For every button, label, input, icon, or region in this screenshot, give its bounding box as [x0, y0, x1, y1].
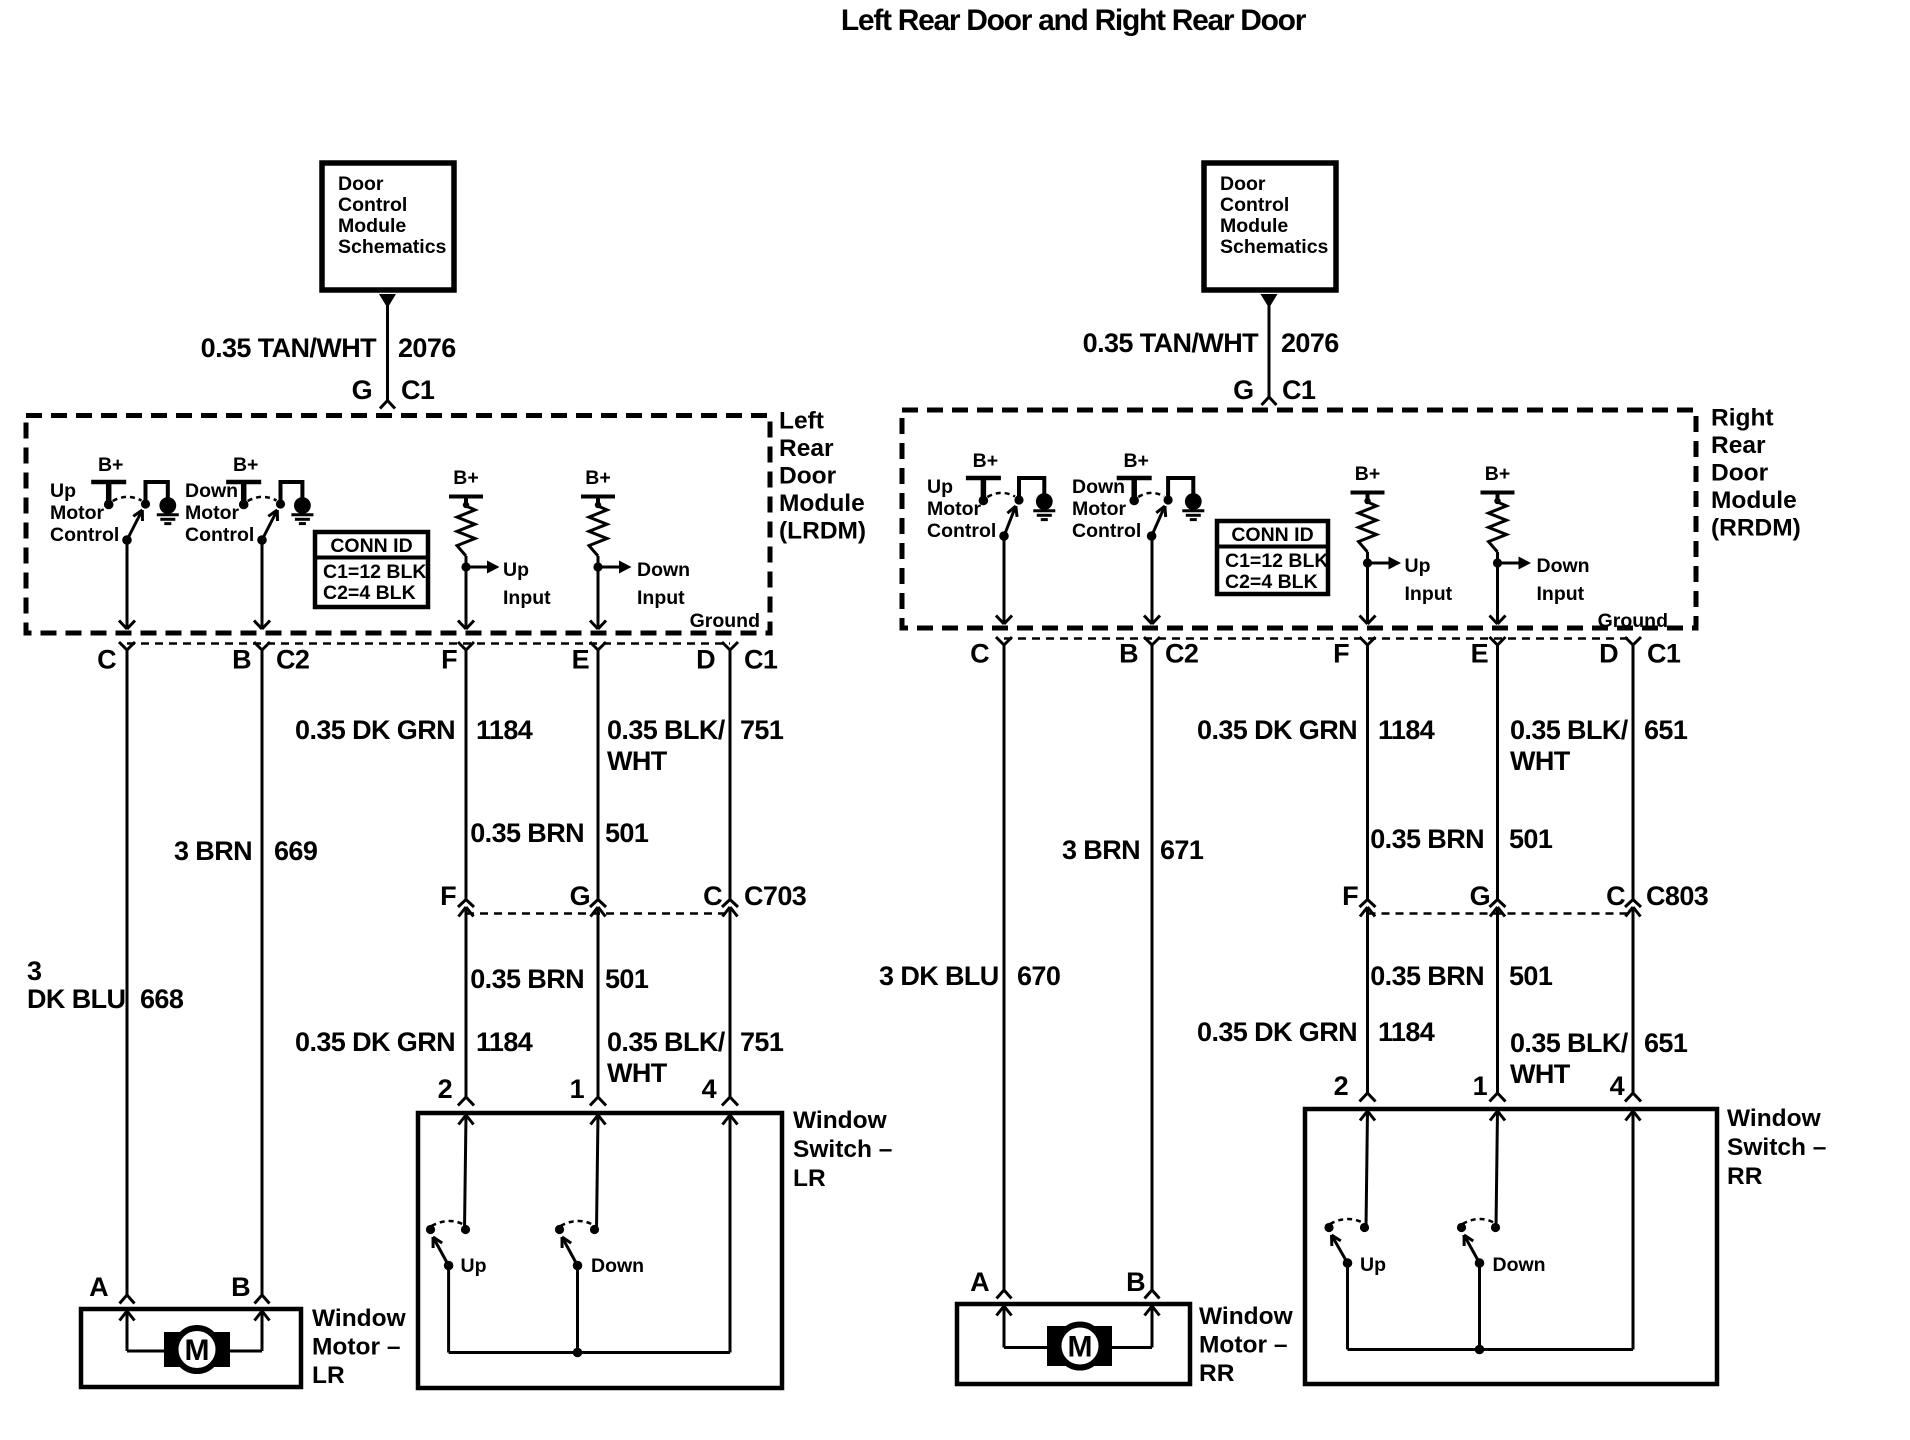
svg-text:Up: Up — [927, 476, 953, 498]
svg-text:Control: Control — [50, 524, 119, 546]
svg-text:B+: B+ — [973, 450, 998, 472]
connector pin C (right) — [970, 637, 1012, 669]
wire F to switch pin 2 (left) — [458, 907, 474, 1106]
svg-text:F: F — [1342, 881, 1358, 911]
label: Right Rear Door Module (RRDM) (right) — [1711, 405, 1801, 542]
svg-text:Window: Window — [1727, 1105, 1822, 1132]
svg-text:4: 4 — [1610, 1071, 1625, 1101]
wire G to switch pin 1 (left) — [590, 907, 606, 1106]
svg-text:Down: Down — [185, 480, 238, 502]
connector pin F (left) — [441, 642, 474, 675]
wire label: 0.35 BRN 501 upper (right) — [1370, 824, 1553, 854]
svg-text:Schematics: Schematics — [338, 236, 447, 258]
svg-text:0.35 TAN/WHT: 0.35 TAN/WHT — [201, 333, 377, 363]
svg-text:B+: B+ — [1485, 463, 1510, 485]
svg-text:Down: Down — [1072, 476, 1125, 498]
svg-text:501: 501 — [1509, 824, 1553, 854]
switch: Up (left) — [426, 1221, 487, 1277]
wire F to switch pin 2 (right) — [1360, 907, 1376, 1102]
svg-text:Module: Module — [779, 490, 865, 517]
relay: Up Motor Control (left) — [50, 454, 179, 546]
svg-text:670: 670 — [1017, 961, 1060, 991]
resistor: Up Input (right) — [1351, 463, 1453, 605]
switch wire from pin 1 (left) — [591, 1115, 606, 1230]
component box: Window Switch RR (right) — [1305, 1109, 1717, 1384]
wire label: 0.35 BLK/WHT 651 lower (right) — [1510, 1028, 1688, 1089]
switch wire from pin 1 (right) — [1490, 1111, 1505, 1228]
wire F up-input (right) — [1360, 563, 1376, 624]
svg-text:Up: Up — [461, 1255, 487, 1277]
wire: DCM to door module pin G with arrow (left) — [379, 294, 396, 401]
svg-text:0.35 BLK/: 0.35 BLK/ — [607, 1027, 726, 1057]
module box: Door Control Module Schematics (right) — [1204, 163, 1336, 290]
door module dashed box (left) — [26, 416, 770, 634]
resistor: Up Input (left) — [449, 467, 551, 609]
svg-text:2076: 2076 — [1281, 328, 1339, 358]
svg-text:Control: Control — [927, 520, 996, 542]
svg-text:B+: B+ — [453, 467, 478, 489]
svg-text:C703: C703 — [744, 881, 807, 911]
component box: Window Switch LR (left) — [418, 1113, 782, 1388]
svg-text:Control: Control — [185, 524, 254, 546]
svg-text:C: C — [1606, 881, 1625, 911]
connector id C703 (left) — [744, 881, 807, 911]
svg-text:G: G — [570, 881, 590, 911]
svg-text:C1=12 BLK: C1=12 BLK — [323, 561, 427, 583]
connector pin D (right) — [1599, 637, 1641, 669]
svg-text:Up: Up — [1360, 1254, 1386, 1276]
connector pins A B (left) — [89, 1272, 269, 1304]
label: Ground (right) — [1598, 610, 1668, 632]
svg-text:G: G — [352, 375, 372, 405]
svg-text:3 BRN: 3 BRN — [1062, 835, 1140, 865]
connector C703 pin C (left) — [703, 881, 738, 917]
svg-text:501: 501 — [605, 964, 649, 994]
svg-text:B: B — [232, 645, 251, 675]
svg-text:Schematics: Schematics — [1220, 236, 1329, 258]
wire F segment to C703 (right) — [1366, 645, 1369, 900]
svg-text:Rear: Rear — [779, 435, 834, 462]
wire label: 0.35 BLK/WHT 751 lower (left) — [607, 1027, 784, 1088]
svg-text:E: E — [1471, 639, 1488, 669]
switch pin numbers 2 1 4 (right) — [1334, 1071, 1625, 1101]
svg-text:1: 1 — [570, 1074, 585, 1104]
wire label: 0.35 DK GRN 1184 upper (right) — [1197, 715, 1435, 745]
wire label: 0.35 TAN/WHT 2076 (left) — [201, 333, 457, 363]
svg-text:Motor –: Motor – — [1199, 1332, 1287, 1359]
switch: Down (left) — [555, 1221, 644, 1277]
connector pin D (left) — [696, 642, 738, 675]
svg-text:0.35 BRN: 0.35 BRN — [1370, 961, 1484, 991]
svg-text:0.35 BLK/: 0.35 BLK/ — [1510, 1028, 1629, 1058]
svg-text:669: 669 — [274, 836, 318, 866]
svg-text:1184: 1184 — [1378, 1017, 1435, 1047]
connector id C803 (right) — [1646, 881, 1709, 911]
svg-text:C2: C2 — [276, 645, 309, 675]
connector id C2 (left) — [276, 645, 309, 675]
svg-text:A: A — [970, 1267, 989, 1297]
svg-text:B: B — [1119, 639, 1138, 669]
connector id C1 (left) — [744, 645, 778, 675]
svg-text:WHT: WHT — [607, 746, 668, 776]
component box: Window Motor RR (right) — [957, 1304, 1190, 1384]
svg-text:M: M — [185, 1334, 210, 1367]
svg-text:Door: Door — [338, 173, 384, 195]
svg-text:RR: RR — [1199, 1360, 1235, 1387]
connector pin F (right) — [1333, 637, 1375, 669]
svg-text:2: 2 — [1334, 1071, 1348, 1101]
wire label: 0.35 BLK/WHT 751 upper (left) — [607, 715, 784, 776]
label: Left Rear Door Module (LRDM) (left) — [779, 408, 866, 545]
svg-text:CONN ID: CONN ID — [330, 535, 412, 557]
wire label: 0.35 DK GRN 1184 lower (right) — [1197, 1017, 1435, 1047]
svg-text:Up: Up — [50, 480, 76, 502]
svg-text:0.35 TAN/WHT: 0.35 TAN/WHT — [1083, 328, 1259, 358]
switch wire from pin 2 (right) — [1360, 1111, 1375, 1228]
svg-text:F: F — [1333, 639, 1349, 669]
svg-text:Right: Right — [1711, 405, 1774, 432]
svg-text:Left Rear Door and Right Rear: Left Rear Door and Right Rear Door — [841, 4, 1307, 37]
svg-text:Down: Down — [1537, 555, 1590, 577]
wire label: 0.35 BRN 501 upper (left) — [470, 818, 649, 848]
svg-text:B+: B+ — [1123, 450, 1148, 472]
svg-text:501: 501 — [605, 818, 649, 848]
svg-text:CONN ID: CONN ID — [1231, 524, 1313, 546]
wire: DCM to door module pin G with arrow (right) — [1261, 294, 1278, 397]
svg-text:B+: B+ — [1355, 463, 1380, 485]
svg-text:D: D — [696, 645, 715, 675]
wire E down-input (left) — [590, 567, 606, 629]
svg-text:C: C — [703, 881, 722, 911]
switch: Down (right) — [1457, 1219, 1546, 1276]
svg-text:Motor: Motor — [185, 502, 240, 524]
svg-text:0.35 DK GRN: 0.35 DK GRN — [295, 715, 455, 745]
CONN ID table (left) — [315, 532, 428, 607]
connector C703 dashed line (left) — [466, 912, 730, 915]
relay: Up Motor Control (right) — [927, 450, 1055, 542]
svg-text:Window: Window — [312, 1305, 407, 1332]
svg-text:WHT: WHT — [1510, 1059, 1571, 1089]
switch pin numbers 2 1 4 (left) — [438, 1074, 717, 1104]
svg-text:LR: LR — [312, 1362, 345, 1389]
module box: Door Control Module Schematics (left) — [322, 163, 454, 290]
wire E segment to C703 (left) — [597, 650, 600, 900]
svg-text:Control: Control — [338, 194, 407, 216]
svg-text:B: B — [1126, 1267, 1145, 1297]
switch wire from pin 4 (right) — [1626, 1111, 1641, 1350]
connector id C2 (right) — [1165, 639, 1198, 669]
wire B to motor B (right) — [1151, 645, 1154, 1290]
svg-text:C: C — [97, 645, 116, 675]
svg-text:651: 651 — [1644, 1028, 1688, 1058]
svg-text:LR: LR — [793, 1165, 826, 1192]
wire label: 0.35 BLK/WHT 651 upper (right) — [1510, 715, 1688, 776]
motor M (right) — [997, 1306, 1160, 1368]
wire C to switch pin 4 (left) — [722, 907, 738, 1106]
svg-text:Module: Module — [1220, 215, 1288, 237]
svg-text:Motor –: Motor – — [312, 1334, 400, 1361]
svg-text:B+: B+ — [233, 454, 258, 476]
wire B to motor B (left) — [261, 650, 264, 1295]
svg-text:Module: Module — [1711, 487, 1797, 514]
connector G C1 (right) — [1233, 375, 1316, 405]
svg-text:3: 3 — [27, 956, 42, 986]
svg-text:C2=4 BLK: C2=4 BLK — [323, 582, 416, 604]
wire D segment to C703 (right) — [1632, 645, 1635, 900]
switch common return wire (left) — [449, 1266, 730, 1358]
svg-text:Input: Input — [637, 587, 685, 609]
svg-text:651: 651 — [1644, 715, 1688, 745]
svg-text:RR: RR — [1727, 1163, 1763, 1190]
relay: Down Motor Control (right) — [1072, 450, 1204, 542]
component box: Window Motor LR (left) — [81, 1309, 301, 1387]
wire C motor-up output (right) — [996, 536, 1012, 624]
wire B motor-down output (left) — [254, 540, 270, 629]
svg-text:C2=4 BLK: C2=4 BLK — [1225, 571, 1318, 593]
svg-text:2076: 2076 — [398, 333, 456, 363]
connector pins A B (right) — [970, 1267, 1159, 1299]
svg-text:G: G — [1470, 881, 1490, 911]
wire C to switch pin 4 (right) — [1625, 907, 1641, 1102]
svg-text:Ground: Ground — [1598, 610, 1668, 632]
wire label: 3 BRN 671 (right) — [1062, 835, 1204, 865]
svg-text:Switch –: Switch – — [1727, 1134, 1826, 1161]
svg-text:(RRDM): (RRDM) — [1711, 515, 1801, 542]
svg-text:M: M — [1068, 1331, 1093, 1364]
label: Ground (left) — [690, 610, 760, 632]
label: Window Switch RR (right) — [1727, 1105, 1826, 1190]
wire F segment to C703 (left) — [465, 650, 468, 900]
switch wire from pin 2 (left) — [459, 1115, 474, 1230]
svg-text:Ground: Ground — [690, 610, 760, 632]
svg-text:WHT: WHT — [1510, 746, 1571, 776]
svg-text:Control: Control — [1220, 194, 1289, 216]
svg-text:Input: Input — [503, 587, 551, 609]
svg-text:Left: Left — [779, 408, 824, 435]
connector pin E (left) — [572, 642, 606, 675]
svg-text:C1: C1 — [1647, 639, 1681, 669]
svg-text:B+: B+ — [585, 467, 610, 489]
label: Window Switch LR (left) — [793, 1107, 892, 1192]
wire label: 3 DK BLU 668 (left) — [27, 956, 184, 1014]
connector C803 pin F (right) — [1342, 881, 1375, 917]
svg-text:3 BRN: 3 BRN — [174, 836, 252, 866]
connector id C1 (right) — [1647, 639, 1681, 669]
wire B motor-down output (right) — [1144, 536, 1160, 624]
resistor: Down Input (right) — [1481, 463, 1590, 605]
svg-text:Module: Module — [338, 215, 406, 237]
svg-text:Control: Control — [1072, 520, 1141, 542]
svg-text:C1: C1 — [401, 375, 435, 405]
svg-text:A: A — [89, 1272, 108, 1302]
wire label: 3 DK BLU 670 (right) — [879, 961, 1060, 991]
svg-text:Up: Up — [1405, 555, 1431, 577]
svg-text:B+: B+ — [98, 454, 123, 476]
wire label: 0.35 DK GRN 1184 upper (left) — [295, 715, 533, 745]
svg-text:WHT: WHT — [607, 1058, 668, 1088]
svg-text:Door: Door — [1220, 173, 1266, 195]
svg-text:0.35 DK GRN: 0.35 DK GRN — [1197, 1017, 1357, 1047]
svg-text:B: B — [231, 1272, 250, 1302]
switch: Up (right) — [1324, 1219, 1386, 1276]
wire label: 3 BRN 669 (left) — [174, 836, 318, 866]
svg-text:1184: 1184 — [1378, 715, 1435, 745]
svg-text:F: F — [441, 645, 457, 675]
wire C to motor A (right) — [1003, 645, 1006, 1290]
svg-text:671: 671 — [1160, 835, 1204, 865]
wire label: 0.35 TAN/WHT 2076 (right) — [1083, 328, 1340, 358]
connector pin C (left) — [97, 642, 135, 675]
svg-text:E: E — [572, 645, 589, 675]
svg-text:751: 751 — [740, 715, 784, 745]
connector C803 pin G (right) — [1470, 881, 1506, 917]
svg-text:Motor: Motor — [1072, 498, 1127, 520]
svg-text:0.35 BLK/: 0.35 BLK/ — [607, 715, 726, 745]
connector C703 pin G (left) — [570, 881, 606, 917]
svg-text:1184: 1184 — [476, 1027, 533, 1057]
svg-text:4: 4 — [702, 1074, 717, 1104]
svg-text:C803: C803 — [1646, 881, 1709, 911]
connector row C2/C1 dashed line (right) — [1004, 637, 1633, 640]
title: Left Rear Door and Right Rear Door — [841, 4, 1307, 37]
svg-text:C1: C1 — [1282, 375, 1316, 405]
relay: Down Motor Control (left) — [185, 454, 313, 546]
svg-text:C1=12 BLK: C1=12 BLK — [1225, 550, 1329, 572]
svg-text:0.35 DK GRN: 0.35 DK GRN — [295, 1027, 455, 1057]
svg-text:Down: Down — [591, 1255, 644, 1277]
svg-text:Window: Window — [1199, 1303, 1294, 1330]
switch common return wire (right) — [1348, 1263, 1634, 1354]
svg-text:1: 1 — [1473, 1071, 1488, 1101]
svg-text:751: 751 — [740, 1027, 784, 1057]
connector pin E (right) — [1471, 637, 1506, 669]
svg-text:Motor: Motor — [50, 502, 105, 524]
svg-text:Up: Up — [503, 559, 529, 581]
wire label: 0.35 BRN 501 lower (left) — [470, 964, 649, 994]
svg-text:Door: Door — [779, 463, 837, 490]
svg-text:Input: Input — [1537, 583, 1585, 605]
wire C to motor A (left) — [126, 650, 129, 1295]
svg-text:Switch –: Switch – — [793, 1136, 892, 1163]
connector G C1 (left) — [352, 375, 435, 409]
wire E down-input (right) — [1490, 563, 1506, 624]
wire label: 0.35 BRN 501 lower (right) — [1370, 961, 1553, 991]
svg-text:F: F — [440, 881, 456, 911]
connector C703 pin F (left) — [440, 881, 474, 917]
svg-text:501: 501 — [1509, 961, 1553, 991]
switch wire from pin 4 (left) — [723, 1115, 738, 1353]
svg-text:0.35 DK GRN: 0.35 DK GRN — [1197, 715, 1357, 745]
svg-text:Down: Down — [637, 559, 690, 581]
wire G to switch pin 1 (right) — [1490, 907, 1506, 1102]
wire D segment to C703 (left) — [729, 650, 732, 900]
svg-text:Door: Door — [1711, 460, 1769, 487]
svg-text:C: C — [970, 639, 989, 669]
svg-text:C2: C2 — [1165, 639, 1198, 669]
svg-text:D: D — [1599, 639, 1618, 669]
svg-text:3 DK BLU: 3 DK BLU — [879, 961, 999, 991]
svg-text:Rear: Rear — [1711, 432, 1766, 459]
svg-text:Input: Input — [1405, 583, 1453, 605]
resistor: Down Input (left) — [581, 467, 690, 609]
svg-text:1184: 1184 — [476, 715, 533, 745]
svg-text:2: 2 — [438, 1074, 452, 1104]
wire label: 0.35 DK GRN 1184 lower (left) — [295, 1027, 533, 1057]
wire F up-input (left) — [458, 567, 474, 629]
svg-text:DK BLU: DK BLU — [27, 984, 125, 1014]
connector C803 pin C (right) — [1606, 881, 1641, 917]
wire E segment to C703 (right) — [1496, 645, 1499, 900]
connector row C2/C1 dashed line (left) — [127, 642, 730, 645]
motor M (left) — [120, 1311, 270, 1371]
svg-text:Down: Down — [1493, 1254, 1546, 1276]
connector pin B (right) — [1119, 637, 1160, 669]
svg-text:0.35 BRN: 0.35 BRN — [470, 818, 584, 848]
connector C803 dashed line (right) — [1368, 912, 1634, 915]
svg-text:(LRDM): (LRDM) — [779, 518, 866, 545]
label: Window Motor LR (left) — [312, 1305, 407, 1389]
CONN ID table (right) — [1217, 521, 1329, 594]
svg-text:G: G — [1233, 375, 1253, 405]
connector pin B (left) — [232, 642, 270, 675]
svg-text:0.35 BLK/: 0.35 BLK/ — [1510, 715, 1629, 745]
label: Window Motor RR (right) — [1199, 1303, 1294, 1387]
svg-text:0.35 BRN: 0.35 BRN — [470, 964, 584, 994]
svg-text:0.35 BRN: 0.35 BRN — [1370, 824, 1484, 854]
door module dashed box (right) — [902, 410, 1696, 628]
svg-text:Window: Window — [793, 1107, 888, 1134]
svg-text:C1: C1 — [744, 645, 778, 675]
wire C motor-up output (left) — [119, 540, 135, 629]
svg-text:668: 668 — [140, 984, 184, 1014]
svg-text:Motor: Motor — [927, 498, 982, 520]
